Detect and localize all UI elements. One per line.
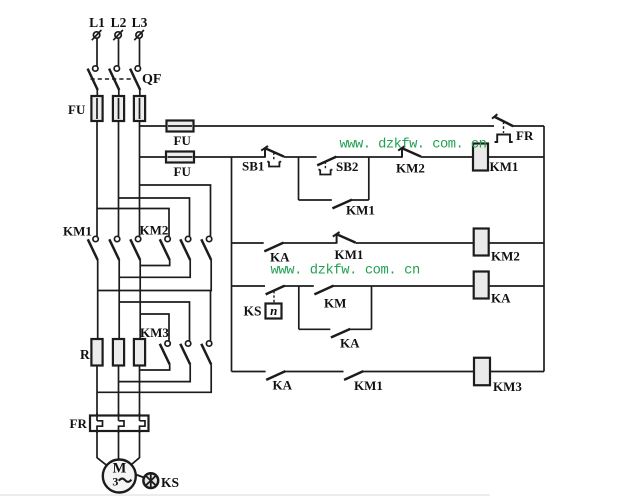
svg-text:KA: KA bbox=[273, 378, 293, 393]
svg-text:KA: KA bbox=[270, 250, 290, 265]
svg-text:n: n bbox=[270, 303, 277, 318]
svg-text:FU: FU bbox=[68, 102, 86, 117]
svg-text:KM1: KM1 bbox=[346, 203, 375, 218]
svg-text:www. dzkfw. com. cn: www. dzkfw. com. cn bbox=[271, 263, 420, 279]
svg-text:KM1: KM1 bbox=[490, 159, 519, 174]
svg-text:FR: FR bbox=[516, 128, 534, 143]
svg-text:KM2: KM2 bbox=[140, 223, 169, 238]
svg-text:KM1: KM1 bbox=[354, 378, 383, 393]
svg-text:3: 3 bbox=[112, 475, 118, 489]
svg-text:FR: FR bbox=[70, 416, 88, 431]
svg-text:www. dzkfw. com. cn: www. dzkfw. com. cn bbox=[340, 137, 487, 153]
svg-text:L2: L2 bbox=[111, 15, 127, 30]
svg-text:KA: KA bbox=[340, 336, 360, 351]
svg-text:KM1: KM1 bbox=[335, 247, 364, 262]
svg-text:KS: KS bbox=[244, 304, 262, 319]
svg-text:KM1: KM1 bbox=[63, 224, 92, 239]
svg-text:KM2: KM2 bbox=[396, 161, 425, 176]
svg-text:KA: KA bbox=[491, 291, 511, 306]
svg-text:FU: FU bbox=[174, 164, 192, 179]
svg-text:L3: L3 bbox=[132, 15, 148, 30]
svg-text:SB1: SB1 bbox=[242, 159, 264, 174]
svg-text:QF: QF bbox=[142, 72, 161, 87]
svg-text:KM3: KM3 bbox=[493, 379, 522, 394]
svg-text:KM: KM bbox=[324, 296, 346, 311]
svg-text:KM2: KM2 bbox=[491, 249, 520, 264]
svg-text:SB2: SB2 bbox=[336, 159, 358, 174]
svg-text:FU: FU bbox=[174, 133, 192, 148]
svg-text:KS: KS bbox=[161, 475, 179, 490]
svg-text:L1: L1 bbox=[89, 15, 105, 30]
svg-text:KM3: KM3 bbox=[140, 325, 169, 340]
svg-text:R: R bbox=[80, 347, 90, 362]
